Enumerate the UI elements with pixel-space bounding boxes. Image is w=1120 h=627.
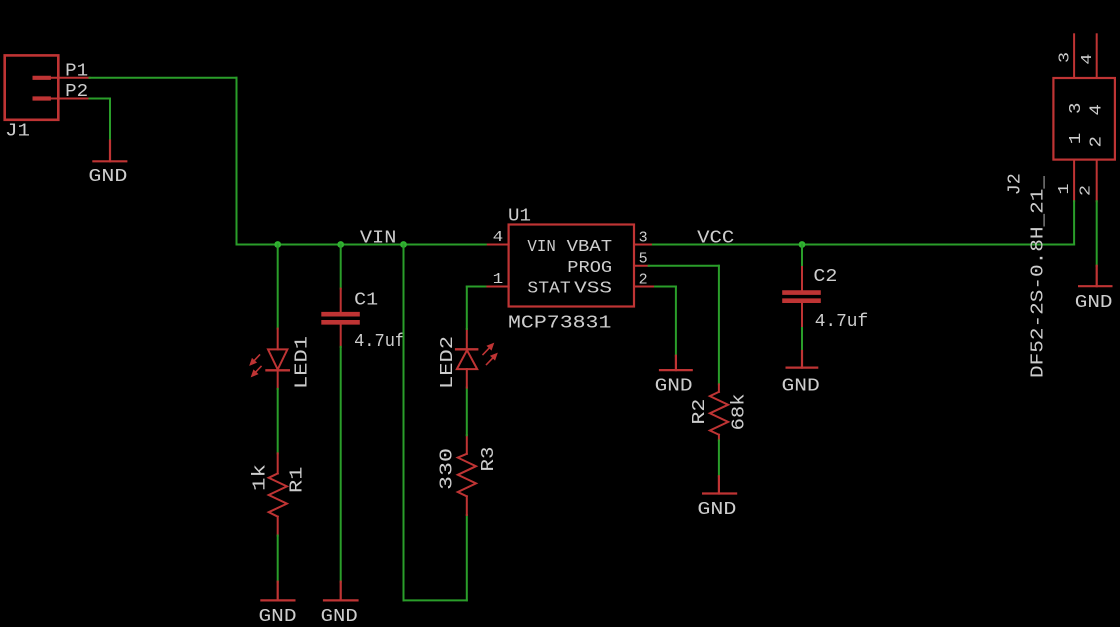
svg-text:LED1: LED1 — [293, 336, 313, 389]
svg-text:2: 2 — [639, 272, 648, 289]
J1 pin P2 — [35, 96, 90, 100]
wire P1 vertical — [236, 78, 238, 245]
svg-text:4: 4 — [493, 229, 504, 246]
svg-text:4: 4 — [1079, 54, 1096, 65]
wire P2 vertical — [109, 99, 111, 141]
wire LED1 to R1 — [277, 389, 279, 454]
capacitor C2 — [785, 267, 819, 328]
svg-text:2: 2 — [1087, 136, 1106, 148]
wire C1 to ground — [340, 347, 342, 582]
svg-text:68k: 68k — [729, 393, 749, 430]
svg-text:GND: GND — [782, 377, 820, 397]
wire J2 pin1 to VCC — [1073, 201, 1075, 244]
svg-text:GND: GND — [88, 167, 127, 187]
resistor R2 — [710, 384, 728, 440]
svg-text:J2: J2 — [1005, 173, 1025, 195]
ground symbol at C1 — [324, 582, 358, 601]
wire C2 to ground — [801, 328, 803, 351]
wire P1 horizontal — [90, 77, 237, 79]
ground symbol at R1 — [261, 582, 294, 601]
svg-text:3: 3 — [1066, 103, 1085, 115]
svg-text:5: 5 — [639, 251, 648, 268]
LED LED1 — [267, 329, 289, 389]
svg-text:P1: P1 — [65, 62, 88, 82]
svg-text:VSS: VSS — [574, 278, 612, 297]
svg-text:DF52-2S-0.8H_21_: DF52-2S-0.8H_21_ — [1029, 176, 1049, 378]
wire VSS pin2 horizontal — [655, 286, 676, 288]
svg-text:2: 2 — [1078, 185, 1095, 196]
wire R1 to ground — [277, 536, 279, 582]
wire PROG vertical — [718, 266, 720, 385]
J1 pin P1 — [35, 76, 90, 80]
wire LED2 to pin1 row — [466, 287, 468, 329]
capacitor C1 — [324, 289, 358, 347]
svg-text:VBAT: VBAT — [567, 237, 613, 256]
wire C1 branch upper — [340, 245, 342, 289]
svg-text:VCC: VCC — [697, 229, 734, 249]
wire J2 pin2 down — [1096, 201, 1098, 266]
ground symbol at U1 VSS — [660, 356, 692, 370]
junction dot C1 branch — [337, 241, 344, 248]
svg-text:GND: GND — [655, 376, 693, 396]
svg-text:U1: U1 — [508, 206, 531, 226]
LED2 emission arrows — [483, 344, 497, 365]
svg-text:P2: P2 — [65, 82, 88, 102]
ground symbol at R2 — [703, 476, 736, 493]
resistor R1 — [269, 453, 287, 535]
U1 pin 3 — [634, 244, 653, 246]
svg-text:1: 1 — [1066, 133, 1085, 145]
svg-text:PROG: PROG — [567, 258, 612, 277]
wire to U1 pin1 — [467, 286, 488, 288]
wire VCC bus — [653, 244, 1074, 246]
LED LED2 — [456, 329, 477, 388]
svg-text:C2: C2 — [813, 267, 837, 287]
connector J1 body — [5, 55, 59, 119]
wire VSS vertical — [675, 287, 677, 356]
wire R3 lower vertical — [466, 515, 468, 600]
wire LED1 branch upper — [277, 245, 279, 329]
wire P2 horizontal — [90, 98, 111, 100]
J2 pin 4 lead (top) — [1096, 34, 1098, 78]
svg-text:R2: R2 — [690, 399, 710, 425]
junction dot STAT branch — [400, 241, 407, 248]
wire C2 branch upper — [801, 245, 803, 268]
svg-text:330: 330 — [438, 448, 458, 490]
U1 pin 5 — [634, 265, 649, 267]
svg-text:VIN: VIN — [360, 229, 397, 249]
wire R2 to ground — [718, 440, 720, 476]
U1 pin 4 — [488, 244, 509, 246]
svg-text:MCP73831: MCP73831 — [508, 314, 611, 334]
wire R3 to LED2 — [466, 388, 468, 436]
svg-text:GND: GND — [259, 607, 297, 627]
J2 pin 2 lead (bottom) — [1096, 160, 1098, 202]
J2 pin 1 lead (bottom) — [1073, 160, 1075, 202]
wire bottom horizontal — [404, 599, 467, 601]
svg-text:4: 4 — [1087, 104, 1106, 116]
svg-text:4.7uf: 4.7uf — [354, 332, 405, 352]
J2 pin 3 lead (top) — [1073, 34, 1075, 78]
svg-text:3: 3 — [1056, 52, 1073, 63]
connector J2 body — [1053, 78, 1115, 160]
svg-text:GND: GND — [1075, 293, 1113, 313]
wire PROG pin5 horizontal — [649, 265, 719, 267]
svg-text:R3: R3 — [479, 447, 499, 472]
junction dot LED1 branch — [274, 241, 281, 248]
svg-text:LED2: LED2 — [438, 336, 458, 389]
wire VIN bus — [237, 244, 488, 246]
svg-text:C1: C1 — [354, 291, 378, 311]
svg-text:1: 1 — [1056, 184, 1073, 195]
LED1 emission arrows — [251, 355, 262, 376]
svg-text:1: 1 — [493, 271, 504, 288]
ground symbol at C2 — [787, 351, 818, 368]
resistor R3 — [458, 435, 476, 515]
ground symbol at J1 P2 — [93, 141, 126, 162]
svg-text:3: 3 — [639, 230, 648, 247]
U1 pin 1 — [487, 286, 508, 288]
wire STAT branch vertical — [403, 245, 405, 601]
svg-text:STAT: STAT — [527, 278, 570, 297]
svg-text:1k: 1k — [251, 464, 271, 491]
svg-text:R1: R1 — [288, 467, 308, 494]
svg-text:VIN: VIN — [527, 237, 555, 256]
svg-text:GND: GND — [321, 607, 358, 627]
junction dot C2 branch — [799, 241, 806, 248]
ground symbol at J2 — [1079, 266, 1111, 286]
svg-text:4.7uf: 4.7uf — [815, 312, 869, 332]
svg-text:J1: J1 — [5, 122, 30, 142]
U1 pin 2 — [634, 286, 655, 288]
IC U1 body — [509, 225, 634, 307]
svg-text:GND: GND — [697, 500, 736, 520]
